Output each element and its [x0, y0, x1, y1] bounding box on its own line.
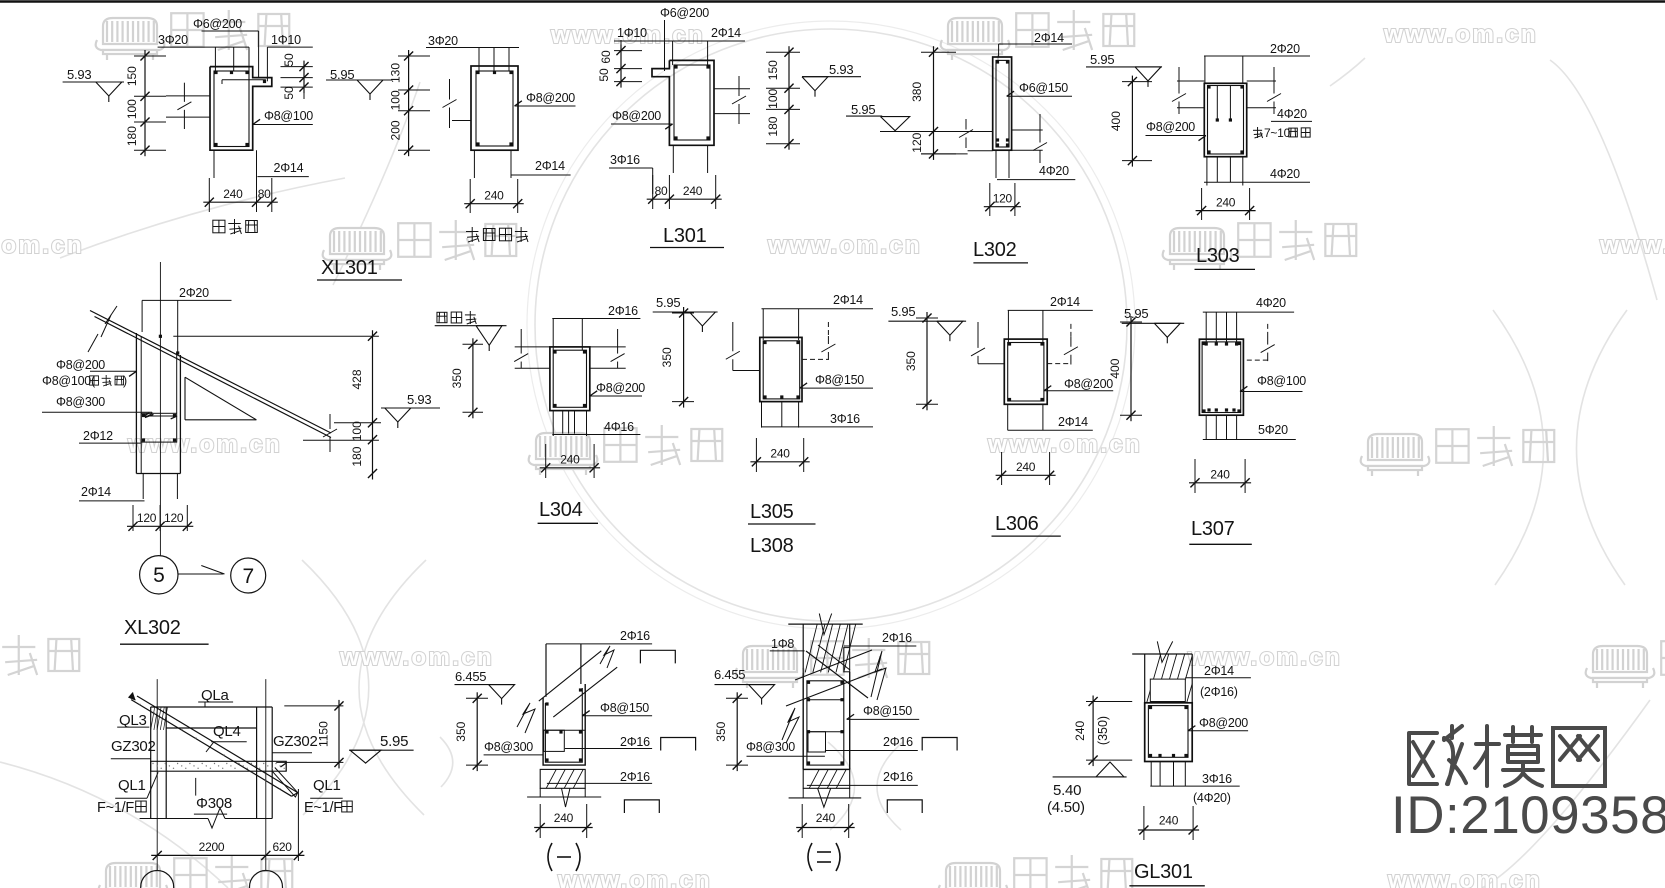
(2) top wall hatched: [788, 623, 862, 625]
GL301 clear recess: [1150, 679, 1185, 701]
bottom dim 240: [464, 203, 524, 205]
svg-text:2Φ14: 2Φ14: [274, 161, 304, 175]
L301 right slab with break: [714, 88, 750, 90]
grid bubble 7: [231, 558, 266, 593]
svg-text:www.om.cn: www.om.cn: [1599, 232, 1665, 259]
XL301 cantilever beam outline: [210, 67, 272, 151]
L303 stirrup: [1208, 86, 1244, 155]
L302 bottom dim 120: [984, 206, 1021, 208]
svg-text:XL301: XL301: [321, 257, 378, 279]
svg-text:5.95: 5.95: [1124, 306, 1148, 321]
svg-text:E~1/F: E~1/F: [304, 800, 342, 816]
svg-text:Φ8@200: Φ8@200: [612, 109, 661, 123]
XL302 haunch triangle: [184, 377, 186, 420]
svg-text:(2Φ16): (2Φ16): [1200, 685, 1238, 699]
svg-text:3Φ20: 3Φ20: [428, 34, 458, 48]
svg-text:2Φ14: 2Φ14: [1204, 664, 1234, 678]
L307 beam outline: [1199, 339, 1243, 415]
svg-text:240: 240: [816, 811, 836, 825]
svg-text:): ): [123, 374, 127, 388]
svg-text:400: 400: [1109, 111, 1123, 131]
XL301 bottom dim 240/80: [203, 201, 277, 203]
svg-text:2Φ14: 2Φ14: [1050, 295, 1080, 309]
svg-text:GZ302: GZ302: [273, 733, 318, 750]
svg-text:620: 620: [272, 840, 292, 854]
svg-text:www.om.cn: www.om.cn: [1383, 21, 1538, 48]
(1) bottom dim 240: [534, 827, 593, 829]
ext line right: [297, 789, 299, 861]
(2) top notch: [844, 648, 850, 672]
svg-text:Φ8@300: Φ8@300: [56, 395, 105, 409]
XL302 wall below dims: [142, 474, 144, 500]
svg-text:5.95: 5.95: [380, 733, 408, 750]
svg-text:7~10: 7~10: [1264, 126, 1291, 140]
svg-text:Φ8@200: Φ8@200: [596, 381, 645, 395]
svg-text:2Φ12: 2Φ12: [83, 429, 113, 443]
QL4 speckle: [139, 704, 140, 705]
GL301 level 5.40(4.50): [1053, 776, 1127, 778]
L302 slab right: [1012, 129, 1043, 131]
svg-text:2Φ14: 2Φ14: [81, 485, 111, 499]
L303 beam outline: [1204, 83, 1246, 156]
level 披屋面: [437, 312, 447, 322]
GL301 beam outline: [1145, 703, 1193, 762]
L303 vert dim 400: [1131, 76, 1133, 167]
svg-text:200: 200: [389, 120, 403, 140]
svg-text:5.95: 5.95: [1090, 52, 1114, 67]
svg-text:5: 5: [153, 564, 164, 587]
svg-text:Φ6@200: Φ6@200: [193, 17, 242, 31]
site stamp 欧模网 ID:2109358: [1409, 726, 1605, 786]
L304 left slab: [515, 346, 550, 348]
(2) roof diagonals: [795, 650, 872, 680]
QLa top beam: [151, 706, 273, 708]
svg-text:2Φ20: 2Φ20: [179, 286, 209, 300]
L305 vert dim 350: [683, 307, 685, 408]
svg-text:Φ8@200: Φ8@200: [526, 91, 575, 105]
(1) hatched plinth: [540, 769, 585, 788]
(1) inner step: [543, 729, 585, 731]
XL301 right dims 50/50: [303, 61, 305, 94]
hook mark bottom (2): [887, 800, 922, 813]
svg-text:100: 100: [766, 88, 780, 108]
svg-text:5.93: 5.93: [829, 62, 853, 77]
svg-text:150: 150: [125, 66, 139, 86]
svg-text:380: 380: [910, 82, 924, 102]
L303 wall below: [1206, 157, 1208, 186]
svg-text:3Φ16: 3Φ16: [610, 153, 640, 167]
label 非悬臂段: [471, 227, 473, 242]
svg-text:130: 130: [389, 63, 403, 83]
hook mark top: [640, 650, 675, 663]
svg-text:350: 350: [454, 721, 468, 741]
XL301 wall below: [213, 150, 215, 178]
L305 beam outline: [760, 337, 802, 401]
svg-text:5.93: 5.93: [67, 67, 91, 82]
svg-text:QL1: QL1: [118, 777, 146, 794]
svg-text:100: 100: [350, 421, 364, 441]
svg-text:5.95: 5.95: [656, 295, 680, 310]
XL302 top-left break: [101, 306, 117, 337]
watermark arcs: [535, 29, 1127, 621]
svg-text:Φ8@200: Φ8@200: [1146, 120, 1195, 134]
L307 bottom bars: [1205, 415, 1207, 439]
L301 left dims 60/50: [620, 45, 622, 88]
beam outline (non-cantilever): [471, 66, 518, 150]
XL302 vert dims 428/100/180: [372, 330, 374, 479]
(2) vert dim 350: [736, 692, 738, 771]
svg-text:L308: L308: [750, 535, 794, 557]
label 悬臂段: [213, 220, 225, 233]
axis line F: [156, 679, 158, 871]
L306 right phantom: [1070, 324, 1072, 337]
L306 vert dim 350: [926, 312, 928, 410]
L306 bottom dim 240: [996, 474, 1056, 476]
L304 right slab: [590, 346, 626, 348]
L303 bottom dim 240: [1196, 210, 1256, 212]
L302 stirrup: [996, 60, 1009, 147]
svg-text:GL301: GL301: [1134, 861, 1193, 883]
svg-text:120: 120: [910, 132, 924, 152]
svg-text:120: 120: [993, 192, 1013, 206]
QL1 right arrow end: [285, 761, 287, 771]
svg-text:5.40: 5.40: [1053, 782, 1081, 799]
svg-text:www.om.cn: www.om.cn: [767, 232, 922, 259]
L304 vert dim 350: [472, 338, 474, 418]
XL301 stirrup: [214, 71, 249, 147]
svg-text:180: 180: [766, 116, 780, 136]
QL4 diagonal brace: [131, 700, 292, 797]
svg-text:4Φ20: 4Φ20: [1039, 164, 1069, 178]
svg-text:350: 350: [904, 351, 918, 371]
svg-text:2Φ16: 2Φ16: [882, 631, 912, 645]
svg-text:120: 120: [137, 511, 157, 525]
svg-text:Φ6@200: Φ6@200: [660, 6, 709, 20]
axis line E: [265, 679, 267, 871]
svg-text:2Φ16: 2Φ16: [883, 735, 913, 749]
svg-text:1Φ10: 1Φ10: [617, 26, 647, 40]
svg-text:Φ8@100: Φ8@100: [264, 109, 313, 123]
svg-text:2Φ16: 2Φ16: [883, 770, 913, 784]
svg-text:L307: L307: [1191, 518, 1235, 540]
vert dims 130/100/200: [408, 50, 410, 156]
svg-text:Φ8@100(: Φ8@100(: [42, 374, 96, 388]
wall bottom edge: [140, 818, 208, 820]
svg-text:50: 50: [282, 53, 296, 67]
svg-text:L305: L305: [750, 501, 794, 523]
GL301 stirrup: [1148, 706, 1188, 758]
svg-text:www.om.cn: www.om.cn: [339, 644, 494, 671]
svg-text:Φ8@300: Φ8@300: [746, 740, 795, 754]
L304 stirrup: [553, 350, 586, 407]
svg-text:240: 240: [223, 187, 243, 201]
hook mark bottom: [624, 800, 659, 813]
grid bubble E: [250, 871, 283, 888]
(2) beam outline: [802, 672, 804, 769]
svg-text:Φ8@100: Φ8@100: [1257, 374, 1306, 388]
svg-text:240: 240: [1073, 720, 1087, 740]
bubble connector: [178, 573, 223, 575]
svg-text:100: 100: [125, 99, 139, 119]
svg-text:2Φ14: 2Φ14: [711, 26, 741, 40]
title (1): [548, 843, 580, 871]
right column GZ302: [256, 707, 258, 819]
L301 stirrup: [674, 65, 710, 140]
svg-text:1Φ10: 1Φ10: [271, 33, 301, 47]
svg-text:4Φ20: 4Φ20: [1256, 296, 1286, 310]
svg-text:L301: L301: [663, 225, 707, 247]
svg-text:4Φ20: 4Φ20: [1277, 107, 1307, 121]
svg-text:www.om.cn: www.om.cn: [127, 431, 282, 458]
svg-text:www.om.cn: www.om.cn: [557, 867, 712, 888]
XL302 right break and slab: [329, 414, 331, 429]
svg-text:2Φ16: 2Φ16: [608, 304, 638, 318]
svg-text:240: 240: [484, 189, 504, 203]
(2) inner lines: [807, 699, 844, 701]
L301 wall below: [672, 145, 674, 173]
svg-text:3Φ16: 3Φ16: [1202, 772, 1232, 786]
XL302 centerline: [159, 262, 161, 556]
svg-text:ID:2109358: ID:2109358: [1391, 786, 1665, 845]
GL301 top wall hatched: [1132, 653, 1192, 655]
svg-text:80: 80: [258, 187, 271, 201]
(1) stirrup: [545, 688, 582, 762]
svg-text:100: 100: [389, 90, 403, 110]
bottom dim 2200/620: [151, 854, 304, 856]
svg-text:www.om.cn: www.om.cn: [987, 431, 1142, 458]
L306 beam outline: [1004, 339, 1047, 404]
svg-text:150: 150: [766, 60, 780, 80]
svg-text:400: 400: [1108, 358, 1122, 378]
watermark logos row grid: [96, 18, 165, 60]
title (2): [808, 843, 840, 871]
svg-text:5.93: 5.93: [407, 392, 431, 407]
L305 wall below: [761, 402, 763, 428]
(2) stirrup: [807, 681, 844, 765]
L305 left slab: [733, 370, 760, 372]
svg-text:240: 240: [554, 811, 574, 825]
L307 right phantom: [1267, 324, 1269, 336]
svg-text:L303: L303: [1196, 245, 1240, 267]
GL301 bars below: [1150, 762, 1152, 787]
XL301 left slab with break: [166, 95, 210, 97]
svg-text:4Φ16: 4Φ16: [604, 420, 634, 434]
L302 vert dims 380/120: [933, 46, 935, 160]
label 仅7~10轴有: [1257, 127, 1259, 138]
svg-text:60: 60: [599, 50, 613, 64]
(1) roof diagonals: [539, 651, 602, 701]
XL302 ext 428 line: [173, 335, 379, 337]
L304 beam outline: [550, 347, 590, 411]
svg-text:240: 240: [683, 184, 703, 198]
L305 right phantom: [827, 322, 829, 336]
(2) bottom dim 240: [796, 827, 855, 829]
QL4 lower tail: [272, 768, 298, 798]
svg-text:50: 50: [282, 86, 296, 100]
(1) vert dim 350: [476, 692, 478, 771]
L302 slab left: [968, 150, 993, 152]
L304 bottom dim 240: [540, 467, 600, 469]
svg-text:Φ8@200: Φ8@200: [1064, 377, 1113, 391]
L305 bottom dim 240: [750, 461, 809, 463]
QL1 ring beam band: [151, 761, 287, 771]
L301 vert dims 150/100/180: [788, 46, 790, 150]
svg-text:50: 50: [597, 68, 611, 82]
break symbol: [449, 79, 451, 100]
svg-text:Φ308: Φ308: [196, 795, 232, 812]
grid bubble 5: [140, 556, 178, 594]
svg-text:Φ8@200: Φ8@200: [56, 358, 105, 372]
(1) beam outline: [543, 684, 585, 765]
L303 top bars: [1216, 86, 1218, 122]
svg-text:5.95: 5.95: [891, 304, 915, 319]
(1) roof top break: [600, 646, 614, 668]
svg-text:350: 350: [660, 347, 674, 367]
XL301 ledge bar 1Φ10: [222, 79, 266, 81]
(2) roof right break: [871, 651, 886, 700]
svg-text:QL4: QL4: [213, 723, 241, 740]
(1) ground line: [527, 796, 601, 798]
svg-text:(4.50): (4.50): [1047, 799, 1085, 816]
(2) hatched plinth: [803, 769, 850, 788]
(2) roof left break: [782, 708, 799, 743]
(1) top wall: [545, 644, 547, 697]
svg-text:Φ8@200: Φ8@200: [1199, 716, 1248, 730]
svg-text:240: 240: [770, 447, 790, 461]
svg-text:80: 80: [655, 184, 668, 198]
svg-text:240: 240: [560, 453, 580, 467]
L306 left slab: [978, 363, 1004, 365]
XL301 vert dims 150/100/180: [144, 50, 146, 156]
svg-text:F~1/F: F~1/F: [97, 800, 134, 816]
svg-text:L306: L306: [995, 513, 1039, 535]
svg-text:QLa: QLa: [201, 687, 230, 704]
svg-text:Φ6@150: Φ6@150: [1019, 81, 1068, 95]
stirrup: [476, 71, 513, 146]
svg-text:QL1: QL1: [313, 777, 341, 794]
svg-text:3Φ16: 3Φ16: [830, 412, 860, 426]
XL302 roof top chord double line: [90, 311, 331, 434]
L302 wall below: [995, 150, 997, 178]
svg-text:2Φ14: 2Φ14: [833, 293, 863, 307]
(1) roof bottom break: [517, 703, 535, 733]
grid bubble F: [141, 871, 174, 888]
svg-text:4Φ20: 4Φ20: [1270, 167, 1300, 181]
XL302 wall stirrup box: [141, 413, 177, 442]
svg-text:6.455: 6.455: [714, 667, 745, 682]
L306 wall below: [1007, 404, 1009, 430]
svg-text:2Φ16: 2Φ16: [620, 770, 650, 784]
svg-text:www.om.cn: www.om.cn: [0, 232, 84, 259]
svg-text:2Φ16: 2Φ16: [620, 629, 650, 643]
(2) ground line: [789, 797, 862, 799]
L301 beam outline: [652, 60, 714, 145]
hook mark mid: [661, 738, 696, 751]
svg-text:QL3: QL3: [119, 712, 147, 729]
svg-text:L304: L304: [539, 499, 583, 521]
L304 bars below: [562, 411, 564, 434]
L301 bottom dim 80/240: [647, 198, 722, 200]
svg-text:7: 7: [242, 565, 253, 588]
svg-text:Φ8@150: Φ8@150: [600, 701, 649, 715]
svg-text:(4Φ20): (4Φ20): [1193, 791, 1231, 805]
svg-text:Φ8@150: Φ8@150: [863, 704, 912, 718]
svg-text:240: 240: [1216, 196, 1236, 210]
GL301 bottom dim 240: [1138, 829, 1199, 831]
L307 stirrup: [1202, 342, 1241, 413]
svg-text:5.95: 5.95: [851, 102, 875, 117]
L302 beam outline: [993, 57, 1012, 150]
L305 stirrup: [763, 341, 800, 399]
L307 vert dim 400: [1130, 316, 1132, 421]
XL302 bottom dim 120/120: [127, 525, 193, 527]
svg-text:(350): (350): [1096, 716, 1110, 745]
svg-text:2Φ20: 2Φ20: [1270, 42, 1300, 56]
svg-text:180: 180: [350, 446, 364, 466]
svg-text:1150: 1150: [317, 721, 331, 747]
svg-text:Φ8@150: Φ8@150: [815, 373, 864, 387]
L307 top bars: [1205, 312, 1207, 342]
svg-text:3Φ20: 3Φ20: [158, 33, 188, 47]
L303 top slab: [1177, 80, 1204, 82]
hook mark mid (2): [922, 738, 957, 751]
svg-text:6.455: 6.455: [455, 669, 486, 684]
GL301 vert dim 240(350): [1092, 696, 1094, 767]
svg-text:GZ302: GZ302: [111, 738, 156, 755]
svg-text:2Φ14: 2Φ14: [1034, 31, 1064, 45]
svg-text:XL302: XL302: [124, 617, 181, 639]
svg-text:2Φ14: 2Φ14: [535, 159, 565, 173]
XL302 wall outlines: [135, 333, 137, 474]
svg-text:1Φ8: 1Φ8: [771, 637, 794, 651]
L307 bottom dim 240: [1189, 482, 1251, 484]
svg-text:2Φ16: 2Φ16: [620, 735, 650, 749]
sheet top border: [0, 0, 1665, 3]
svg-text:240: 240: [1016, 460, 1036, 474]
svg-text:2Φ14: 2Φ14: [1058, 415, 1088, 429]
svg-text:240: 240: [1210, 468, 1230, 482]
svg-text:2200: 2200: [199, 840, 225, 854]
left column GZ302: [150, 707, 152, 819]
svg-text:L302: L302: [973, 239, 1017, 261]
svg-text:5Φ20: 5Φ20: [1258, 423, 1288, 437]
svg-text:350: 350: [450, 368, 464, 388]
svg-text:Φ8@300: Φ8@300: [484, 740, 533, 754]
dim 1150: [338, 700, 340, 769]
wall below: [473, 150, 475, 178]
svg-text:350: 350: [714, 721, 728, 741]
L306 stirrup: [1008, 343, 1044, 402]
svg-text:240: 240: [1159, 814, 1179, 828]
svg-text:180: 180: [125, 126, 139, 146]
svg-text:www.om.cn: www.om.cn: [1387, 867, 1542, 888]
svg-text:120: 120: [164, 511, 184, 525]
left column hatch: [151, 707, 155, 730]
svg-text:428: 428: [350, 369, 364, 389]
